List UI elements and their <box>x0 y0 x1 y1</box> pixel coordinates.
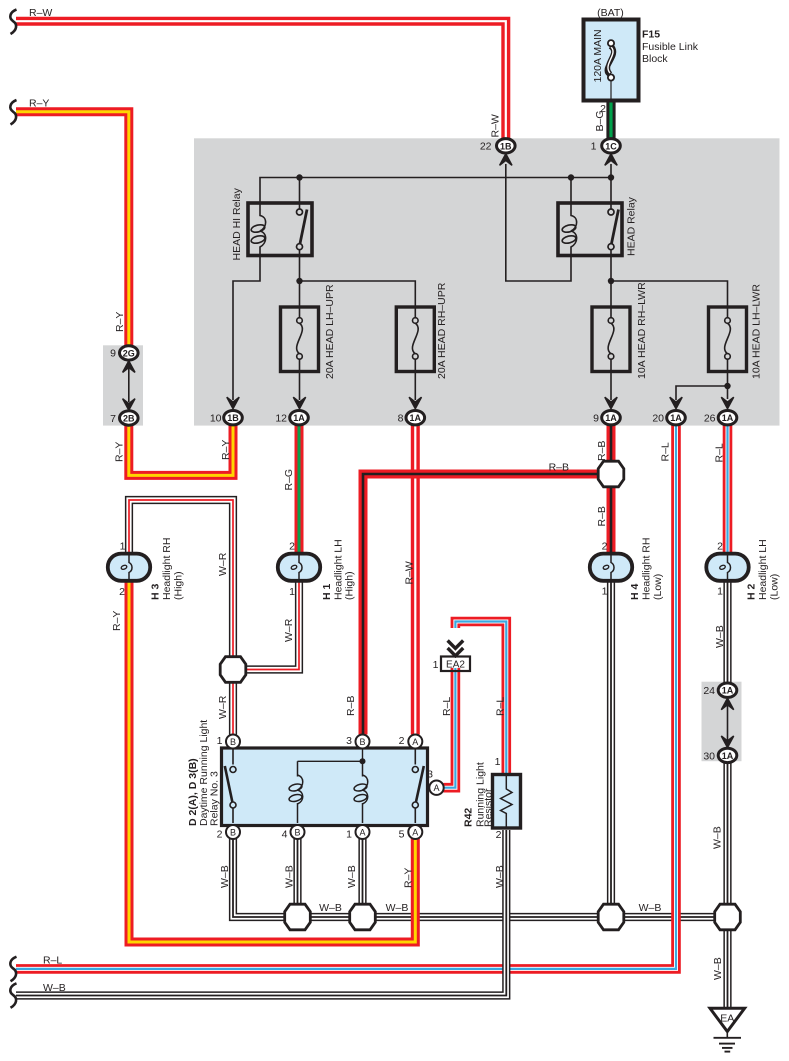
svg-text:B: B <box>294 827 300 837</box>
svg-text:R–B: R–B <box>596 506 608 526</box>
wire 1C stub down to bus <box>610 164 612 178</box>
wire break squiggle R-W <box>10 10 16 35</box>
svg-text:W–B: W–B <box>639 902 662 914</box>
octagon junction W-B B <box>715 904 741 930</box>
svg-text:1: 1 <box>602 586 608 598</box>
svg-text:(Low): (Low) <box>652 574 664 600</box>
svg-text:5: 5 <box>399 829 405 841</box>
svg-text:1: 1 <box>346 829 352 841</box>
svg-text:(Low): (Low) <box>769 574 781 600</box>
wire link between 2G and 2B <box>128 367 130 402</box>
junction dot below HEAD switch <box>608 278 614 284</box>
svg-text:1: 1 <box>591 141 597 153</box>
svg-text:1A: 1A <box>670 413 682 423</box>
connector oval 30(1A) with arrows <box>718 736 737 763</box>
svg-text:120A MAIN: 120A MAIN <box>592 29 604 82</box>
resistor R42 Running Light Resistor <box>493 775 521 829</box>
wire R-G from 12(1A) to H1 pin 2 <box>295 425 304 554</box>
wire link between 24 and 30 <box>727 705 729 741</box>
svg-text:9: 9 <box>593 413 599 425</box>
octagon junction W-B 2 <box>350 904 376 930</box>
svg-text:R42: R42 <box>463 808 475 827</box>
svg-text:A: A <box>433 783 439 793</box>
svg-text:R–Y: R–Y <box>114 442 126 462</box>
svg-text:4: 4 <box>282 829 288 841</box>
wire W-B from H4 pin 1 down to octagon A <box>607 580 615 904</box>
svg-text:R–Y: R–Y <box>220 440 232 460</box>
headlight bulb H3 <box>108 554 150 581</box>
connector oval 1C (1) with arrow <box>602 139 621 166</box>
junction dot at bus x299.5 <box>296 174 302 180</box>
svg-text:B: B <box>230 737 236 747</box>
letters in DRL pin circles <box>230 737 440 838</box>
pin 3(A) <box>429 781 443 795</box>
svg-text:HEAD HI Relay: HEAD HI Relay <box>231 187 243 260</box>
svg-text:30: 30 <box>703 751 715 763</box>
svg-text:(High): (High) <box>173 571 185 600</box>
svg-text:2: 2 <box>496 829 502 841</box>
octagon junction R-B <box>598 461 624 487</box>
fuse 10A HEAD RH-LWR <box>592 307 630 372</box>
fusible link block F15 <box>584 20 639 101</box>
svg-text:2: 2 <box>399 735 405 747</box>
svg-text:B: B <box>230 827 236 837</box>
svg-text:Block: Block <box>642 53 668 65</box>
fuse 10A HEAD LH-LWR <box>709 307 747 372</box>
headlight bulb H2 <box>706 554 748 581</box>
wire R-B from octagon left and down to DRL pin 3(B) <box>363 474 599 735</box>
svg-text:EA: EA <box>720 1013 734 1025</box>
svg-text:26: 26 <box>704 413 716 425</box>
ground tag EA2 <box>441 641 470 672</box>
svg-text:R–G: R–G <box>283 469 295 491</box>
connector oval 26(1A) with arrow <box>718 397 737 425</box>
wire W-B from octagon B down to ground EA <box>723 930 731 1008</box>
svg-text:1: 1 <box>495 756 501 768</box>
svg-text:1: 1 <box>433 659 439 671</box>
octagon junction W-R (left) <box>220 657 246 683</box>
svg-text:12: 12 <box>275 413 287 425</box>
wire W-B from DRL pin 4(B) to octagon 1 <box>293 838 301 904</box>
svg-text:H 4: H 4 <box>629 584 641 601</box>
texts in connector ovals <box>123 141 734 761</box>
svg-text:2: 2 <box>717 541 723 553</box>
relay HEAD Relay <box>558 203 622 256</box>
junction dot at bus x571 <box>568 174 574 180</box>
svg-text:HEAD Relay: HEAD Relay <box>626 196 638 256</box>
svg-text:10A HEAD LH–LWR: 10A HEAD LH–LWR <box>751 284 763 379</box>
svg-text:EA2: EA2 <box>446 660 465 671</box>
svg-text:R–L: R–L <box>441 697 453 716</box>
svg-text:R–Y: R–Y <box>403 868 415 888</box>
wire R-L from DRL pin 3(A) up to ground EA2 <box>444 668 456 788</box>
svg-text:1A: 1A <box>410 413 422 423</box>
svg-text:(BAT): (BAT) <box>597 7 624 19</box>
svg-text:R–B: R–B <box>345 696 357 716</box>
wire below fuse 20A HEAD LH-UPR to 12(1A) <box>299 371 301 400</box>
harness gray box (relay/fuse block background) <box>194 138 780 425</box>
svg-text:R–B: R–B <box>596 441 608 461</box>
svg-text:2: 2 <box>289 541 295 553</box>
svg-text:B–G: B–G <box>594 110 606 131</box>
fuse 20A HEAD LH-UPR <box>281 307 319 372</box>
svg-text:R–L: R–L <box>660 442 672 461</box>
pin 2(B) <box>226 825 240 839</box>
wire R-W from battery feed (top left) to connector 1B <box>16 21 506 139</box>
svg-text:Relay No. 3: Relay No. 3 <box>209 771 221 826</box>
svg-text:R–L: R–L <box>495 697 507 716</box>
svg-text:1: 1 <box>717 586 723 598</box>
fuse 20A HEAD RH-UPR <box>396 307 434 372</box>
svg-text:A: A <box>359 827 365 837</box>
svg-text:H 1: H 1 <box>321 584 333 601</box>
svg-text:R–Y: R–Y <box>29 98 49 110</box>
connector oval 24(1A) with arrows <box>718 683 737 710</box>
svg-text:R–W: R–W <box>404 561 416 584</box>
svg-text:2: 2 <box>602 541 608 553</box>
svg-text:W–B: W–B <box>714 625 726 648</box>
svg-text:W–B: W–B <box>386 902 409 914</box>
ground symbol EA <box>710 1008 745 1051</box>
junction dot at bus x611 <box>608 174 614 180</box>
svg-text:W–B: W–B <box>712 826 724 849</box>
wire R-B from octagon down to H4 pin 2 <box>607 486 616 554</box>
svg-text:R–W: R–W <box>29 7 52 19</box>
connector oval 9(1A) with arrow <box>602 397 621 425</box>
octagon junction W-B 1 <box>285 904 311 930</box>
svg-text:R–B: R–B <box>549 462 569 474</box>
svg-text:(High): (High) <box>344 571 356 600</box>
wire W-B between octagon 2 and octagon A <box>375 913 598 921</box>
wire R-Y from DRL pin 5(A) down, across and up to H3 pin 2 <box>129 580 415 942</box>
svg-text:W–B: W–B <box>712 957 724 980</box>
wire W-B from 30(1A) down to octagon B <box>723 763 731 905</box>
svg-text:1B: 1B <box>227 413 239 423</box>
connector oval 12(1A) with arrow <box>290 397 309 425</box>
wire R-Y loop from 2B up to 10(1B) <box>129 425 233 476</box>
wire HEAD Relay switch bottom to fuses 10A <box>611 249 728 308</box>
svg-text:7: 7 <box>110 413 116 425</box>
svg-text:8: 8 <box>398 413 404 425</box>
wire R-B from 9(1A) to junction octagon <box>607 425 616 463</box>
svg-text:W–B: W–B <box>319 902 342 914</box>
svg-text:2: 2 <box>119 586 125 598</box>
gray box behind 2G/2B connector <box>103 345 143 425</box>
svg-text:24: 24 <box>703 685 715 697</box>
relay D2(A) D3(B) Daytime Running Light Relay No.3 <box>222 735 444 840</box>
pin 5(A) <box>408 825 422 839</box>
svg-text:H 2: H 2 <box>746 584 758 601</box>
wire W-R octagon right branch up to H1 pin 1 <box>245 580 299 669</box>
wire HEAD Relay coil-top stub <box>570 178 572 205</box>
svg-text:1A: 1A <box>293 413 305 423</box>
wire below fuse 10A HEAD LH-LWR junction to 26(1A) and 20(1A) <box>727 371 729 399</box>
svg-text:W–R: W–R <box>217 695 229 719</box>
svg-text:20: 20 <box>652 413 664 425</box>
svg-text:F15: F15 <box>642 29 660 41</box>
wire R-W from 8(1A) down to DRL relay pin 2(A) <box>411 425 420 735</box>
wire 1B to HEAD Relay coil bottom <box>506 164 571 281</box>
svg-text:Headlight RH: Headlight RH <box>161 538 173 600</box>
connector oval 8(1A) with arrow <box>406 397 425 425</box>
svg-text:1: 1 <box>217 735 223 747</box>
svg-text:2G: 2G <box>123 348 135 358</box>
wire B-G from fusible link to connector 1C <box>606 100 615 139</box>
svg-text:W–R: W–R <box>283 618 295 642</box>
wire W-R loop from H3 pin 1 over to octagon junction <box>129 500 233 657</box>
svg-text:1: 1 <box>120 541 126 553</box>
svg-text:1A: 1A <box>722 751 734 761</box>
svg-text:1C: 1C <box>605 141 617 151</box>
pin 3(B) <box>356 735 370 749</box>
svg-text:9: 9 <box>110 348 116 360</box>
wire W-B from DRL pin 1(A) to octagon 2 <box>358 838 366 904</box>
svg-text:H 3: H 3 <box>150 584 162 601</box>
svg-text:Headlight RH: Headlight RH <box>641 538 653 600</box>
wire W-B from R42 pin 2 down and across to left edge <box>16 830 506 996</box>
wire W-B from H2 pin 1 down to 24(1A) <box>723 580 731 683</box>
svg-text:W–B: W–B <box>219 865 231 888</box>
headlight bulb H1 <box>278 554 320 581</box>
wire R-L from R42 pin 1 up and over to EA2 arrows <box>455 622 506 774</box>
svg-text:R–Y: R–Y <box>114 312 126 332</box>
svg-text:W–B: W–B <box>494 865 506 888</box>
svg-text:W–B: W–B <box>284 865 296 888</box>
svg-text:1A: 1A <box>722 413 734 423</box>
svg-text:10: 10 <box>210 413 222 425</box>
svg-text:20A HEAD LH–UPR: 20A HEAD LH–UPR <box>324 284 336 379</box>
svg-text:R–Y: R–Y <box>111 611 123 631</box>
svg-text:10A HEAD RH–LWR: 10A HEAD RH–LWR <box>636 282 648 379</box>
svg-text:1A: 1A <box>722 686 734 696</box>
headlight bulb H4 <box>590 554 632 581</box>
wire W-B from DRL pin 2(B) to octagon 1 <box>233 838 285 917</box>
svg-text:1B: 1B <box>500 141 512 151</box>
wire W-B between octagon 1 and octagon 2 <box>310 913 350 921</box>
connector oval 20(1A) with arrow <box>667 397 686 425</box>
pin 1(B) <box>226 735 240 749</box>
connector oval 7(2B) with arrows <box>120 399 139 425</box>
wire below fuse 10A HEAD RH-LWR to 9(1A) <box>610 371 612 400</box>
svg-text:R–L: R–L <box>714 443 726 462</box>
wire W-B between octagon A and octagon B <box>624 913 715 921</box>
wire R-Y (top left) to connector 2G <box>16 112 129 346</box>
octagon junction W-B A <box>598 904 624 930</box>
relay HEAD HI Relay <box>248 203 312 256</box>
gray box behind 24/30 connector <box>702 682 742 762</box>
svg-text:Resistor: Resistor <box>483 788 495 827</box>
pin 4(B) <box>291 825 305 839</box>
svg-text:2: 2 <box>217 829 223 841</box>
svg-text:Headlight LH: Headlight LH <box>757 539 769 600</box>
wire break squiggle R-Y <box>10 100 16 125</box>
svg-text:Fusible Link: Fusible Link <box>642 41 699 53</box>
pin 2(A) <box>408 735 422 749</box>
wire below fuse 20A HEAD RH-UPR to 8(1A) <box>414 371 416 400</box>
wire R-L from 20(1A) down and across to left edge <box>16 425 676 969</box>
svg-text:R–W: R–W <box>490 114 502 137</box>
svg-text:2B: 2B <box>123 414 135 424</box>
junction dot below fuse LH-LWR <box>724 383 730 389</box>
wire W-R octagon down to DRL pin 1(B) <box>229 683 237 735</box>
svg-text:3: 3 <box>346 735 352 747</box>
connector oval 1B (22) with arrow <box>497 139 516 166</box>
wire break squiggle R-L <box>10 957 16 982</box>
svg-text:22: 22 <box>480 141 492 153</box>
svg-text:R–L: R–L <box>43 955 62 967</box>
wire R-L from 26(1A) to H2 pin 2 <box>723 425 733 554</box>
svg-text:W–B: W–B <box>43 982 66 994</box>
svg-text:1: 1 <box>289 586 295 598</box>
wire HEAD HI Relay coil bottom to 10(1B) <box>233 256 260 401</box>
wire HEAD HI Relay switch-top stub <box>299 178 301 210</box>
svg-text:20A HEAD RH–UPR: 20A HEAD RH–UPR <box>436 282 448 379</box>
svg-text:B: B <box>359 737 365 747</box>
wire break squiggle W-B <box>10 983 16 1008</box>
svg-text:1A: 1A <box>605 413 617 423</box>
svg-text:A: A <box>412 827 418 837</box>
wire main feed bus with ends into both relays <box>260 178 611 210</box>
pin 1(A) <box>356 825 370 839</box>
svg-text:A: A <box>412 737 418 747</box>
junction dot below HEAD HI switch <box>296 278 302 284</box>
svg-text:W–B: W–B <box>346 865 358 888</box>
svg-text:W–R: W–R <box>217 552 229 576</box>
wire HEAD HI Relay switch bottom to fuses 20A <box>300 249 416 308</box>
svg-text:3: 3 <box>427 769 433 781</box>
connector oval 10(1B) with arrow <box>224 397 243 425</box>
connector oval 9(2G) with arrows <box>120 346 139 373</box>
